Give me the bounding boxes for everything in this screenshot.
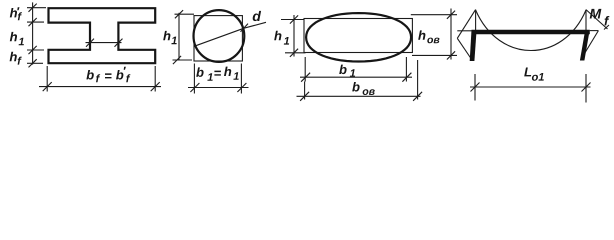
label hf xyxy=(10,52,22,65)
support leg left xyxy=(457,38,471,58)
web width dimension line xyxy=(86,39,123,47)
ellipse section xyxy=(306,13,411,61)
moment hypotenuse right xyxy=(586,10,609,30)
beam thick top chord xyxy=(472,30,590,35)
moment parabola xyxy=(476,10,586,51)
dimension hov right xyxy=(411,9,457,60)
flange width dimension bf = b'f xyxy=(39,66,161,92)
label h1 left xyxy=(10,32,24,45)
label hov xyxy=(418,30,439,43)
beam thick left bar xyxy=(470,30,477,61)
label h'f xyxy=(10,7,22,20)
beam thick right bar xyxy=(580,30,590,61)
label Mf xyxy=(590,9,610,26)
label h1 ellipse xyxy=(274,31,289,45)
I-beam section outline xyxy=(49,8,156,63)
dimension h1 of circle xyxy=(173,10,195,64)
moment apex right vertical xyxy=(585,10,587,30)
dimension Lo1 xyxy=(470,74,591,103)
label bf = b'f xyxy=(86,67,130,83)
circle section xyxy=(194,10,245,62)
support leg right xyxy=(582,31,599,59)
beam zero line left overhang xyxy=(457,30,472,32)
label bov xyxy=(352,82,375,95)
diameter line d xyxy=(196,22,267,46)
label d xyxy=(253,11,261,21)
height dimension line h'f h1 hf xyxy=(27,2,46,67)
rectangle around ellipse xyxy=(304,19,412,53)
dimension b1 = h1 xyxy=(188,64,249,94)
label h1 circle xyxy=(163,31,177,44)
label b1 ellipse xyxy=(339,65,355,77)
square around circle xyxy=(194,16,242,61)
label b1 = h1 xyxy=(196,67,239,81)
moment apex left vertical xyxy=(475,10,477,30)
dimension h1 of ellipse xyxy=(281,15,306,57)
dimension bov bottom xyxy=(297,60,423,101)
label Lo1 xyxy=(524,68,544,81)
moment hypotenuse left xyxy=(457,10,475,39)
beam zero line right overhang xyxy=(590,30,599,32)
dimension b1 of ellipse xyxy=(300,57,412,82)
